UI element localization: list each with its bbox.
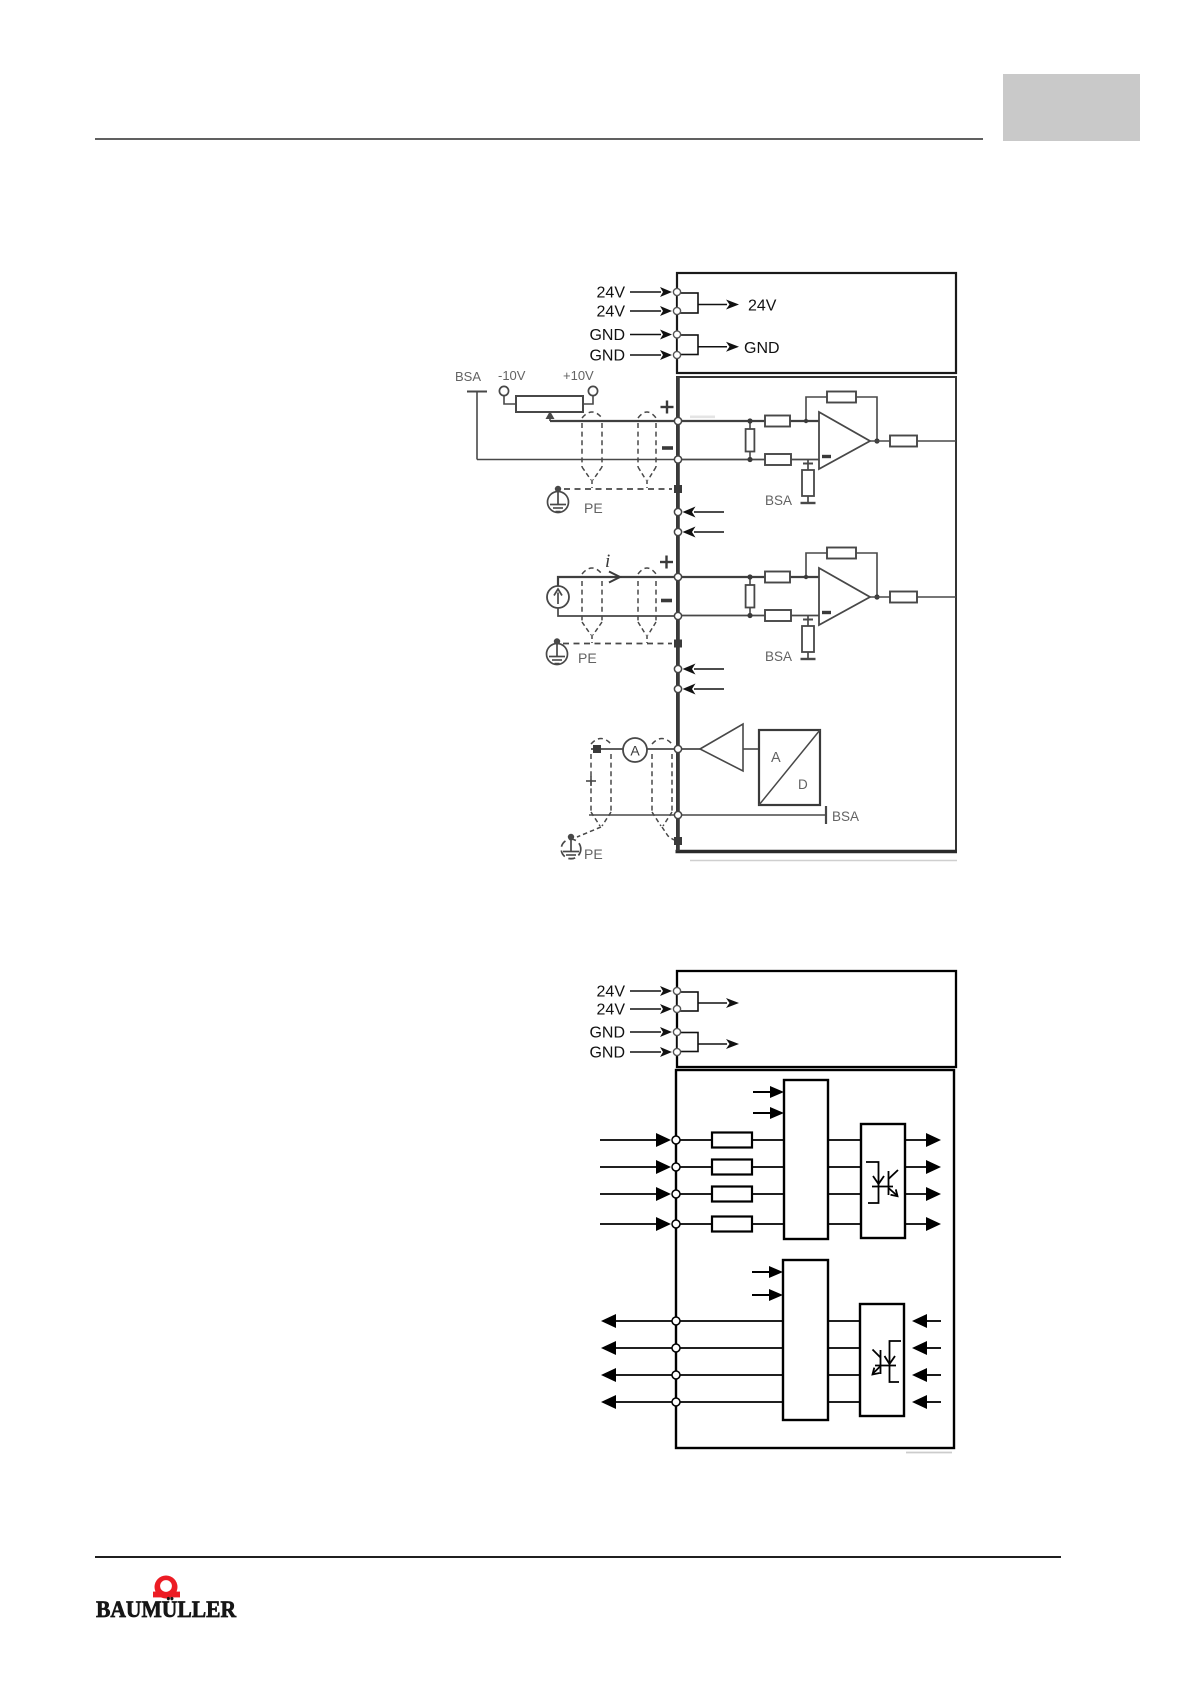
output resistor U2 xyxy=(870,596,890,598)
cable shield dashed conductors C xyxy=(590,754,592,812)
svg-text:+10V: +10V xyxy=(563,368,594,383)
wire AE- (BSA to bus) xyxy=(477,459,678,461)
module box: digital I/O section xyxy=(676,1070,954,1448)
internal 24V distribution arrow xyxy=(698,1002,727,1004)
wire + input to op-amp U1 xyxy=(678,420,819,422)
header rule xyxy=(95,138,983,140)
svg-text:BSA: BSA xyxy=(765,493,792,508)
svg-text:GND: GND xyxy=(744,340,780,357)
output buffer block xyxy=(783,1260,828,1420)
terminal node circle pin 3 xyxy=(673,1028,680,1035)
BSA reference rail xyxy=(467,391,487,393)
bottom edge thick xyxy=(676,850,958,853)
buffer to optocoupler wire 4 xyxy=(828,1223,861,1225)
Baumueller logo mark xyxy=(155,1576,178,1599)
terminal +10V xyxy=(588,386,597,395)
output wire U1 xyxy=(917,440,956,442)
op-amp U1 xyxy=(819,412,870,469)
digital input line 3 xyxy=(600,1193,657,1195)
wire arrow into pin GND 4 xyxy=(630,1051,661,1053)
wire arrow into pin 24V 1 xyxy=(630,990,661,992)
svg-text:PE: PE xyxy=(584,500,603,516)
svg-text:24V: 24V xyxy=(597,285,626,302)
module box: 24V supply interface (analog) xyxy=(677,273,956,373)
series resistor - path U2 xyxy=(765,610,791,621)
digital output line 4 xyxy=(601,1395,616,1409)
series resistor + path U1 xyxy=(765,416,790,427)
internal GND distribution arrow xyxy=(698,1043,727,1045)
wire AE+ (wiper to bus) xyxy=(550,420,678,422)
output wire after optocoupler 1 xyxy=(905,1139,928,1141)
reserve terminal arrow 2 xyxy=(694,531,724,533)
potentiometer wiper arrow xyxy=(549,416,551,421)
wire AE2- bottom xyxy=(558,608,678,616)
optocoupler symbol (output side) xyxy=(873,1341,902,1382)
buffer to optocoupler wire out 3 xyxy=(828,1374,860,1376)
digital input line 4 xyxy=(600,1223,657,1225)
faint erased label remnant xyxy=(690,416,715,419)
BSA pulldown resistor U1 xyxy=(807,460,809,471)
feed wire into optocoupler out 3 xyxy=(912,1368,927,1382)
svg-text:-10V: -10V xyxy=(498,368,526,383)
module box: analog input section xyxy=(677,377,956,852)
footer rule xyxy=(95,1556,1061,1558)
bus node return wire xyxy=(674,811,681,818)
svg-text:D: D xyxy=(798,777,808,792)
reserve terminal arrow 3 xyxy=(694,668,724,670)
input shunt resistor U1 xyxy=(746,429,755,452)
current source symbol xyxy=(547,586,569,608)
PE earth circle xyxy=(547,644,568,665)
internal supply square 2 xyxy=(677,335,698,355)
svg-text:24V: 24V xyxy=(748,298,777,315)
potentiometer R-set xyxy=(516,396,583,412)
internal supply square 1 xyxy=(677,293,698,313)
internal supply square 2 xyxy=(677,1033,698,1052)
svg-text:GND: GND xyxy=(589,1025,625,1042)
svg-text:24V: 24V xyxy=(597,984,626,1001)
enable arrow input buffer 1 xyxy=(753,1091,771,1093)
module box: 24V supply interface (digital) xyxy=(677,971,956,1067)
feed wire into optocoupler out 4 xyxy=(912,1395,927,1409)
wire +10V to potentiometer xyxy=(583,396,593,404)
A/D converter xyxy=(759,730,820,805)
minus mark input A xyxy=(662,446,673,450)
feedback network U1 xyxy=(806,397,827,421)
buffer to optocoupler wire out 2 xyxy=(828,1347,860,1349)
series resistor - path U1 xyxy=(765,454,791,465)
scan shadow under box xyxy=(690,860,957,862)
buffer to optocoupler wire 2 xyxy=(828,1166,861,1168)
svg-text:A: A xyxy=(630,743,640,759)
input buffer block xyxy=(784,1080,828,1239)
shield drain Y right xyxy=(638,467,646,480)
bus node AE1- xyxy=(674,456,681,463)
wire arrow into pin GND 3 xyxy=(630,334,661,336)
buffer amplifier triangle xyxy=(700,724,743,771)
output resistor U1 xyxy=(870,440,890,442)
digital input line 1 xyxy=(600,1139,657,1141)
PE earth symbol xyxy=(570,839,572,851)
op-amp U2 xyxy=(819,568,870,625)
digital output line 1 xyxy=(601,1314,616,1328)
svg-text:GND: GND xyxy=(589,1045,625,1062)
terminal node circle pin 2 xyxy=(673,1005,680,1012)
BSA pulldown resistor U2 xyxy=(807,616,809,627)
terminal node circle pin 4 xyxy=(673,351,680,358)
wire arrow into pin GND 3 xyxy=(630,1031,661,1033)
terminal node circle pin 1 xyxy=(673,288,680,295)
shield drain Y left xyxy=(582,467,591,480)
terminal node circle pin 4 xyxy=(673,1048,680,1055)
input shunt resistor U2 xyxy=(746,585,755,608)
plus mark input B xyxy=(660,561,673,563)
PE earth circle xyxy=(548,492,569,513)
wire -10V to potentiometer xyxy=(504,396,516,404)
current direction chevron xyxy=(609,572,620,583)
PE earth symbol xyxy=(557,491,559,504)
optocoupler symbol (input side) xyxy=(866,1162,898,1203)
minus mark input B xyxy=(661,599,672,603)
enable arrow output buffer 1 xyxy=(752,1271,770,1273)
buffer to optocoupler wire 1 xyxy=(828,1139,861,1141)
svg-text:PE: PE xyxy=(584,846,603,862)
output wire after optocoupler 3 xyxy=(905,1193,928,1195)
enable arrow output buffer 2 xyxy=(752,1294,770,1296)
terminal -10V xyxy=(499,386,508,395)
wire AE2+ top xyxy=(558,577,678,586)
buffer to optocoupler wire out 1 xyxy=(828,1320,860,1322)
wire buffer to ADC xyxy=(743,748,759,750)
input resistor 2 xyxy=(712,1160,752,1175)
wire arrow into pin 24V 1 xyxy=(630,291,661,293)
series resistor + path U2 xyxy=(765,572,790,583)
junction square on ammeter wire xyxy=(593,745,601,753)
terminal node circle pin 2 xyxy=(673,307,680,314)
PE shield dashed wire B xyxy=(563,643,672,645)
reserve terminal arrow 1 xyxy=(694,511,724,513)
buffer to optocoupler wire out 4 xyxy=(828,1401,860,1403)
cable shield arcs C xyxy=(591,739,611,745)
feed wire into optocoupler out 2 xyxy=(912,1341,927,1355)
bus node AE2- xyxy=(674,612,681,619)
feed wire into optocoupler out 1 xyxy=(912,1314,927,1328)
svg-text:A: A xyxy=(771,750,781,766)
cable shield arc pair xyxy=(582,412,602,418)
terminal node circle pin 3 xyxy=(673,331,680,338)
internal supply square 1 xyxy=(677,992,698,1011)
shield Y right C xyxy=(652,812,661,826)
wire - input to op-amp U2 xyxy=(678,615,819,617)
BSA termination bar C xyxy=(825,806,827,824)
digital output line 2 xyxy=(601,1341,616,1355)
svg-text:24V: 24V xyxy=(597,304,626,321)
junction square on bus (shield B) xyxy=(674,640,682,648)
output wire after optocoupler 2 xyxy=(905,1166,928,1168)
plus mark input A xyxy=(661,406,674,408)
terminal node circle pin 1 xyxy=(673,987,680,994)
optocoupler block outputs xyxy=(860,1304,904,1416)
wire - input to op-amp U1 xyxy=(678,459,819,461)
output node U2 xyxy=(874,594,879,599)
svg-text:24V: 24V xyxy=(597,1002,626,1019)
PE earth circle xyxy=(561,839,581,859)
internal GND distribution arrow xyxy=(698,346,727,348)
input resistor 1 xyxy=(712,1133,752,1148)
bus node AE2+ xyxy=(674,573,681,580)
cable shield dashed conductors xyxy=(581,581,583,622)
PE dot xyxy=(554,638,560,644)
feedback network U2 xyxy=(806,553,827,577)
shield drain Y left xyxy=(582,622,591,635)
wire + input to op-amp U2 xyxy=(678,576,819,578)
junction square on bus (shield C) xyxy=(674,837,682,845)
reserve terminal arrow 4 xyxy=(694,688,724,690)
polarity tick C xyxy=(586,780,596,782)
svg-text:BSA: BSA xyxy=(765,649,792,664)
output node U1 xyxy=(874,438,879,443)
svg-text:BSA: BSA xyxy=(832,809,859,824)
input resistor 4 xyxy=(712,1217,752,1232)
input resistor 3 xyxy=(712,1187,752,1202)
bus node AE1+ xyxy=(674,417,681,424)
junction square on bus (shield A) xyxy=(674,485,682,493)
buffer to optocoupler wire 3 xyxy=(828,1193,861,1195)
cable shield dashed conductors xyxy=(581,423,583,467)
internal 24V distribution arrow xyxy=(698,304,727,306)
wire ammeter loop top xyxy=(591,748,623,750)
scan shadow under box 2 xyxy=(906,1452,952,1454)
PE dot xyxy=(555,486,561,492)
svg-text:GND: GND xyxy=(589,348,625,365)
optocoupler block inputs xyxy=(861,1124,905,1238)
shield Y left C xyxy=(591,812,600,826)
output wire after optocoupler 4 xyxy=(905,1223,928,1225)
wire arrow into pin GND 4 xyxy=(630,354,661,356)
wire arrow into pin 24V 2 xyxy=(630,310,661,312)
svg-text:GND: GND xyxy=(589,327,625,344)
digital output line 3 xyxy=(601,1368,616,1382)
svg-text:BSA: BSA xyxy=(455,369,481,384)
wire arrow into pin 24V 2 xyxy=(630,1008,661,1010)
svg-text:BAUMÜLLER: BAUMÜLLER xyxy=(96,1597,236,1622)
wire lower return C xyxy=(589,814,826,816)
output wire U2 xyxy=(917,596,956,598)
PE earth symbol xyxy=(556,644,558,657)
PE dot xyxy=(568,834,574,840)
bus node ammeter wire xyxy=(674,745,681,752)
header gray tab xyxy=(1003,74,1140,141)
digital input line 2 xyxy=(600,1166,657,1168)
shield drain Y right xyxy=(638,622,646,635)
svg-text:PE: PE xyxy=(578,650,597,666)
ammeter A xyxy=(623,738,647,762)
internal terminal bus xyxy=(676,377,680,851)
enable arrow input buffer 2 xyxy=(753,1112,771,1114)
PE shield dashed wire A xyxy=(564,488,672,490)
svg-text:i: i xyxy=(605,551,610,572)
cable shield arc pair xyxy=(582,568,602,574)
